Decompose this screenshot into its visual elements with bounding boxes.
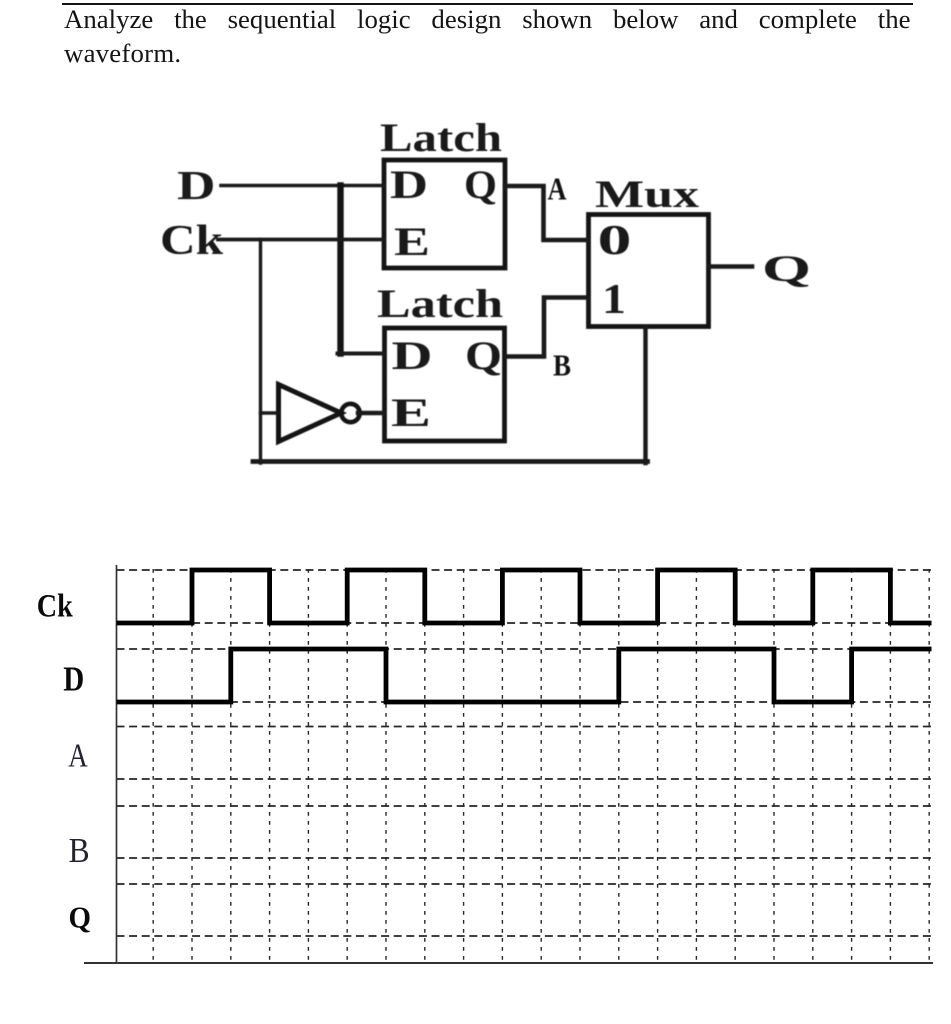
latch U2 pin Q [465,333,502,378]
wire: D branch into latch U2 pin D [338,352,385,356]
svg-text:D: D [63,661,84,699]
wire: inverter output to latch U2 pin E [358,411,384,415]
svg-text:B: B [553,348,571,383]
signal label Ck [37,589,74,625]
latch U1 pin E [394,219,430,264]
signal label D [63,661,84,699]
inverter U4 [279,385,360,442]
svg-text:0: 0 [598,218,632,264]
svg-text:Latch: Latch [377,281,503,326]
latch U2 box [385,328,505,441]
problem statement text line 1 [64,4,911,35]
timing grid vertical dashed lines [153,569,929,962]
latch U1 box [384,160,505,268]
svg-text:B: B [69,831,90,870]
wire: D input to latch U1 [221,184,384,188]
wire: latch U2 Q to node B [507,298,588,357]
input D label [177,162,216,208]
wire: latch U1 Q to node A [505,186,588,240]
svg-text:1: 1 [602,277,626,323]
wire: mux output to Q [709,264,752,269]
node A label [548,171,567,207]
wire: bottom rail Ck to mux select [253,459,648,464]
mux U3 label [595,173,700,216]
svg-text:A: A [68,738,88,775]
latch U1 pin Q [464,162,497,207]
problem statement text line 2 [64,38,181,69]
wire: Ck drop vertical [259,240,262,464]
timing grid horizontal dashed lines [117,570,933,936]
svg-text:Q: Q [464,162,497,207]
latch U2 label [377,281,503,326]
svg-text:D: D [392,333,433,378]
svg-text:D: D [390,162,428,207]
svg-text:Ck: Ck [37,589,74,625]
mux U3 pin 1 [602,277,626,323]
svg-text:E: E [391,390,431,435]
timing axis bottom [84,962,933,964]
svg-text:Mux: Mux [595,173,700,216]
svg-text:Latch: Latch [380,115,502,160]
signal label A [68,738,88,775]
svg-text:D: D [177,162,216,208]
latch U1 label [380,115,502,160]
svg-text:Q: Q [465,333,502,378]
top rule [62,3,913,5]
signal label Q [69,901,92,935]
signal Ck trace [117,570,932,623]
timing axis vertical [116,565,118,963]
latch U2 pin E [391,390,431,435]
svg-text:A: A [548,171,567,207]
latch U2 pin D [392,333,433,378]
mux U3 box [589,215,709,327]
signal label B [69,831,90,870]
wire: Ck to inverter input [261,411,279,414]
node B label [553,348,571,383]
svg-text:Q: Q [69,901,92,935]
signal D trace [117,649,932,702]
wire: D branch vertical to latch U2 [337,186,343,354]
mux U3 pin 0 [598,218,632,264]
latch U1 pin D [390,162,428,207]
svg-text:E: E [394,219,430,264]
svg-text:Ck: Ck [160,218,224,264]
input Ck label [160,218,224,264]
wire: mux select vertical [643,327,647,463]
wire: Ck to latch U1 pin E [218,238,384,242]
output Q label [762,249,811,290]
svg-text:Q: Q [762,249,811,290]
